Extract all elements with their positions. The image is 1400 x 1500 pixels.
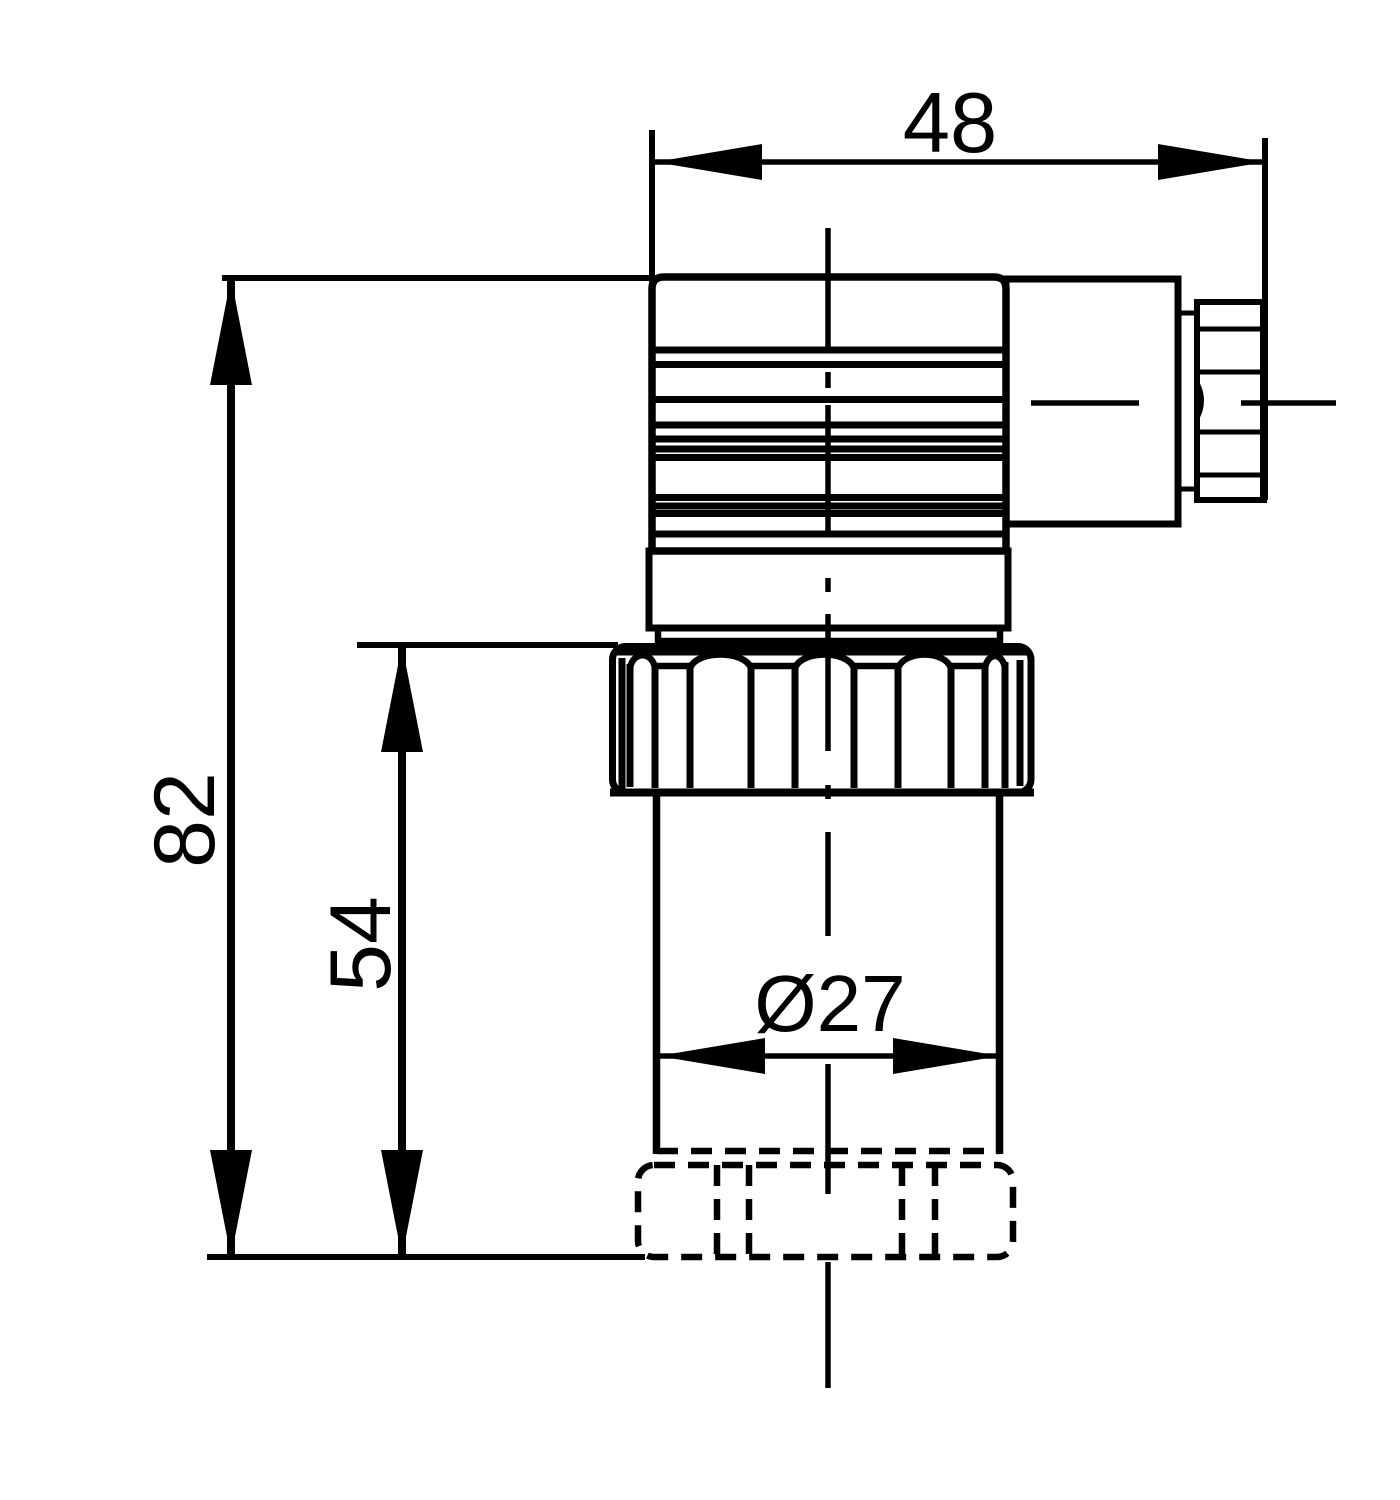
knurl top edge thick <box>615 647 1029 656</box>
collar band side left <box>655 628 662 647</box>
knurl groove top lines <box>655 663 985 670</box>
dimension 54 extension line top <box>357 642 618 648</box>
svg-text:54: 54 <box>313 896 409 992</box>
svg-text:82: 82 <box>137 772 233 868</box>
vertical centerline <box>825 228 831 1388</box>
gland right edge thick <box>1260 302 1268 500</box>
knurl dome arcs <box>630 655 1005 669</box>
dimension D27 line <box>658 1053 1000 1059</box>
dimension 48 extension line left <box>649 130 655 282</box>
gland hex lines <box>1197 329 1264 475</box>
dimension 48 arrow left <box>655 144 762 180</box>
dimension 82 extension line top <box>222 275 660 281</box>
knurl bottom edge thick <box>610 789 1034 797</box>
collar lower band line <box>658 638 1000 645</box>
collar <box>649 551 1008 628</box>
dimension 54 arrow top <box>381 645 423 752</box>
hidden hex top line <box>657 1148 999 1155</box>
body cylinder right edge <box>996 792 1004 1154</box>
svg-text:48: 48 <box>903 76 998 171</box>
connector housing outline <box>652 277 1006 551</box>
dimension 82 line <box>227 278 235 1257</box>
dimension 82 arrow top <box>210 278 252 385</box>
dimension 48 arrow right <box>1158 144 1265 180</box>
dimension 48 line <box>655 159 1265 165</box>
hidden hex outline <box>638 1165 1013 1257</box>
dimension 48 extension line right <box>1262 138 1268 302</box>
svg-text:Ø27: Ø27 <box>754 959 905 1048</box>
knurl vertical lines <box>622 658 1020 789</box>
neck line top <box>1178 311 1197 316</box>
cable gland hex nut <box>1197 302 1264 500</box>
dimension D27 arrow left <box>658 1038 765 1074</box>
dimension D27 arrow right <box>893 1038 1000 1074</box>
dimension 54 line <box>398 645 406 1257</box>
housing fin lines <box>652 350 1006 534</box>
horizontal centerline <box>1031 400 1336 406</box>
neck line bottom <box>1178 487 1197 492</box>
gland chamfer arc <box>1197 383 1202 418</box>
knurled ring nut outline <box>613 647 1032 793</box>
collar band side right <box>997 628 1004 647</box>
hidden hex inner lines <box>717 1165 935 1257</box>
body cylinder left edge <box>653 792 661 1154</box>
connector back box <box>1006 279 1178 524</box>
dimension 82/54 extension line bottom <box>207 1254 645 1260</box>
dimension 82 arrow bottom <box>210 1150 252 1257</box>
dimension 54 arrow bottom <box>381 1150 423 1257</box>
